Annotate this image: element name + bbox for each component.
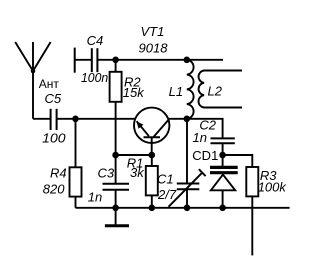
- wire L1 bottom to C2 corner: [187, 119, 223, 139]
- capacitor C1 trimmer: [169, 169, 206, 207]
- antenna mast wire: [32, 42, 34, 119]
- bottom rail wire: [76, 207, 290, 209]
- wire C1 top lead: [186, 119, 188, 184]
- wire CD1 node down: [222, 155, 224, 166]
- svg-text:820: 820: [43, 182, 65, 197]
- wire R1 bottom lead: [151, 195, 153, 207]
- svg-text:1n: 1n: [193, 130, 207, 145]
- capacitor C5: [51, 109, 57, 130]
- wire R4 to bottom rail: [75, 197, 77, 208]
- resistor R2: [110, 72, 122, 102]
- svg-text:3k: 3k: [130, 165, 145, 180]
- capacitor C4: [92, 48, 98, 72]
- wire R3 tail down: [251, 196, 253, 255]
- antenna apex node: [31, 69, 36, 74]
- varicap CD1: [210, 167, 238, 190]
- node L1 top: [184, 57, 191, 64]
- wire junction down to R4: [75, 119, 77, 168]
- node CD1 top: [219, 152, 226, 159]
- svg-text:R4: R4: [50, 165, 67, 180]
- inductor L2 with leads: [199, 71, 242, 108]
- resistor R3: [246, 167, 258, 196]
- svg-text:100n: 100n: [81, 70, 108, 85]
- ground stub wire: [115, 208, 117, 225]
- wire C5 to transistor emitter: [57, 118, 135, 120]
- capacitor C3: [103, 184, 130, 190]
- wire antenna to C5: [33, 118, 51, 120]
- node base row left: [112, 152, 119, 159]
- top rail wire C4 to stub end: [97, 59, 223, 61]
- wire CD1 node to R3: [223, 155, 253, 167]
- wire R1 top lead: [151, 155, 153, 166]
- svg-text:2/7: 2/7: [157, 187, 177, 202]
- antenna right arm: [33, 42, 51, 71]
- svg-text:15k: 15k: [123, 85, 145, 100]
- capacitor C2: [211, 138, 235, 143]
- wire base lead down: [151, 137, 153, 155]
- svg-text:C4: C4: [87, 33, 104, 48]
- wire CD1 bottom lead: [222, 190, 224, 208]
- svg-text:L1: L1: [169, 84, 183, 99]
- node R1 bottom: [149, 205, 156, 212]
- node CD1 bottom: [219, 205, 226, 212]
- svg-text:100: 100: [42, 130, 66, 145]
- wire R2 top lead: [115, 60, 117, 72]
- wire R2 bottom to base row (crosses main wire): [115, 102, 117, 155]
- svg-text:Ант: Ант: [39, 77, 60, 91]
- svg-text:C3: C3: [98, 166, 115, 181]
- node R2 top: [112, 57, 119, 64]
- resistor R4: [70, 167, 82, 196]
- wire collector to L1 bottom: [169, 118, 187, 120]
- node L1 bottom: [184, 116, 191, 123]
- svg-text:9018: 9018: [139, 41, 169, 56]
- node junction C5/R4: [72, 116, 79, 123]
- node C3/ground: [112, 205, 119, 212]
- svg-text:C5: C5: [45, 91, 62, 106]
- ground: [105, 224, 129, 227]
- svg-text:L2: L2: [208, 84, 223, 99]
- wire C3 bottom lead: [115, 190, 117, 208]
- node C1 bottom: [184, 205, 191, 212]
- resistor R1: [146, 166, 158, 195]
- node base row right: [149, 152, 156, 159]
- svg-text:VT1: VT1: [141, 24, 165, 39]
- svg-text:CD1: CD1: [192, 148, 218, 163]
- inductor L1: [187, 60, 194, 119]
- svg-text:1n: 1n: [88, 190, 102, 205]
- wire terminal to C4: [75, 59, 92, 61]
- transistor VT1: [134, 108, 169, 143]
- wire base row: [116, 154, 152, 156]
- C4 open terminal bar: [74, 48, 76, 73]
- wire C1 bottom lead: [186, 189, 188, 208]
- wire C3 top lead: [115, 155, 117, 184]
- svg-text:100k: 100k: [258, 179, 288, 194]
- antenna left arm: [15, 42, 33, 71]
- wire C2 bottom to CD1 node: [222, 143, 224, 155]
- svg-text:C1: C1: [157, 172, 174, 187]
